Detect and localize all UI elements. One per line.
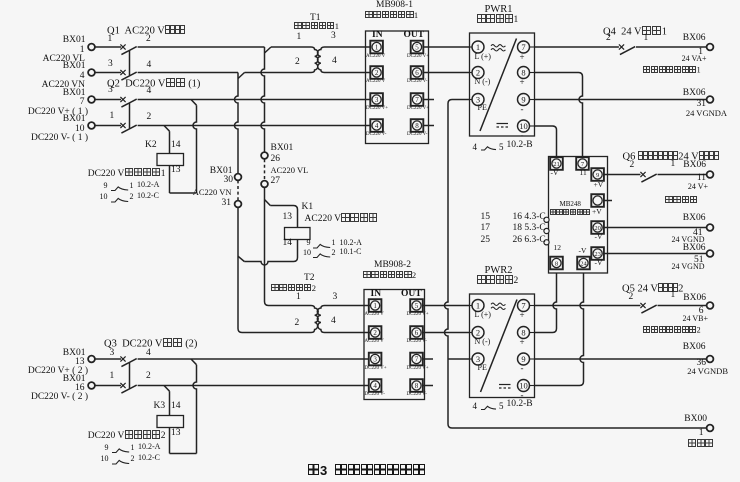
Q2 contact 4 (147, 87, 152, 97)
label relay K2 (145, 141, 157, 151)
MB908-2 pin 4 (369, 379, 382, 392)
MB908-2 IN (371, 290, 382, 300)
svg-text:23: 23 (594, 251, 601, 258)
K1 pin 13 (283, 213, 293, 223)
PWR2 pin 7 (530, 305, 535, 307)
label BX01 (30/31) (163, 167, 233, 177)
breaker Q4 x-mark (619, 44, 624, 49)
net 24 VGNDA (657, 109, 727, 118)
PWR2 pin9 - (521, 364, 524, 373)
pin number 16 (15, 384, 85, 394)
net 24 VA+ (637, 55, 707, 63)
net 24 VGND (41) (635, 236, 705, 244)
MB248 pin 10 (591, 194, 604, 207)
wire row3 to MB908-1 pin3 (138, 99, 370, 101)
K3 aux dest 10.2-A (138, 443, 160, 451)
label transformer T2 (304, 274, 315, 284)
MB248 aux 18 5.3-C (513, 224, 546, 234)
PWR1 pin 1 (470, 46, 473, 48)
label BX06 (51) (636, 244, 706, 254)
MB908-1 IN (372, 31, 383, 41)
svg-text:5: 5 (415, 302, 419, 310)
PWR1 N- (475, 78, 491, 86)
MB248 pin 7 (576, 157, 589, 170)
Q3 contact 1 (110, 372, 115, 382)
T2 pin 3 (333, 293, 338, 303)
breaker Q6 blade (641, 174, 656, 182)
label BX06 (31) (636, 89, 706, 99)
wire MB248 pin20 to BX06-41 (604, 227, 706, 229)
K3 aux pin 1 (131, 444, 135, 452)
breaker Q3 pole 3-4 x-mark (120, 356, 125, 361)
wire K2 coil bottom (169, 166, 171, 194)
K1 aux contact 9-1 (313, 244, 330, 248)
label dual supply module 2 (363, 271, 416, 280)
net label AC220 VL mid (271, 166, 309, 175)
Q1 contact 3 (108, 60, 113, 70)
label shield ground (644, 439, 714, 448)
breaker Q2 pole 3-4 blade (121, 99, 136, 107)
svg-text:2: 2 (476, 68, 480, 78)
svg-text:2: 2 (373, 329, 377, 337)
label transformer T1 (310, 14, 321, 24)
wire vertical B upper (node B to BX01-30, hops rows 3-4) (235, 73, 239, 174)
MB908-1 pin 3 (370, 93, 383, 106)
K2 aux pin 1 (130, 182, 134, 190)
PWR2 pin 3 (470, 358, 473, 360)
wire PWR2 pin3 PE stub (448, 358, 470, 360)
PWR2 undervoltage contact 4-5 (481, 406, 496, 409)
K1 aux pin 10 (291, 249, 311, 257)
PWR2 L+ (475, 311, 491, 319)
MB908-1 left pin label AC220 V (366, 54, 385, 59)
K2 aux contact 9-1 (111, 187, 128, 191)
MB908-2 pin 1 (369, 299, 382, 312)
K3 aux pin 2 (131, 455, 135, 463)
wire vertical A lower (27 to T2 pin1, hop K1 return) (265, 187, 269, 305)
dashed connector 26-27 (264, 159, 266, 180)
MB908-2 OUT (401, 290, 422, 300)
K1 aux pin 1 (332, 239, 336, 247)
breaker Q2 pole 1-2 blade (121, 125, 136, 133)
breaker Q1 pole 3-4 x-mark (120, 70, 125, 75)
MB908-1 pin 8 (411, 119, 424, 132)
wire row B2 to MB908-2 pin4 (138, 385, 369, 387)
MB908-1 right pin label DC220 V+ (407, 106, 429, 111)
K3 aux pin 10 (89, 455, 109, 463)
MB908-2 pin 3 (369, 353, 382, 366)
wire vertical B lower (31 to T2 pin2) (238, 207, 242, 332)
stub MB908-2 pin7 (423, 358, 433, 360)
PWR2 uv contact 4 (473, 402, 478, 411)
wire K1 coil feed (270, 206, 297, 228)
dashed connector 30-31 (237, 180, 239, 200)
MB908-1 right pin label DC220 V- (407, 79, 427, 84)
PWR1 pin 2 (470, 72, 473, 74)
PWR1 DC symbol (497, 123, 509, 125)
MB908-2 right pin label DC220 V- (407, 339, 427, 344)
svg-text:8: 8 (415, 122, 419, 130)
MB908-2 pin 7 (410, 353, 423, 366)
svg-text:1: 1 (476, 42, 480, 52)
svg-text:2: 2 (476, 328, 480, 338)
K1 aux dest 10.1-C (340, 248, 362, 256)
breaker Q3 pole 1-2 x-mark (120, 383, 125, 388)
MB908-2 pin 6 (410, 326, 423, 339)
wire node A to T1 pin 1 (271, 46, 311, 48)
pin number 1 (15, 46, 85, 56)
PWR1 uv contact 4 (473, 143, 478, 152)
wire MB248 pin9 to Q6 (604, 174, 640, 176)
terminal BX01 pin16 (88, 382, 95, 389)
label BX01 (row1) (16, 36, 86, 46)
net label DC220 V+ (1) (18, 108, 88, 118)
terminal BX01 pin1 (88, 44, 95, 51)
power supply PWR2 box (470, 294, 535, 398)
terminal BX06 pin41 (707, 224, 714, 231)
net 24 V+ (638, 183, 708, 191)
wire Q6 to BX06-11 (658, 174, 707, 176)
label BX06 (11) (636, 161, 706, 171)
K3 aux contact 10-2 (112, 460, 129, 464)
Q3 contact 2 (146, 372, 151, 382)
MB908-1 left pin label DC220 V- (366, 132, 386, 137)
label dual supply module 1 (365, 11, 418, 20)
wire PWR2 pin8 to MB248 pin8 riser (hop Q5 rail) (535, 273, 557, 333)
K2 aux dest 10.2-C (137, 192, 159, 200)
PWR1 pin 9 (530, 99, 535, 101)
K2 aux contact 10-2 (111, 198, 128, 202)
wire row B1 to MB908-2 pin3 (138, 358, 369, 360)
PWR2 N- (475, 338, 491, 346)
PWR2 AC symbol (491, 303, 505, 305)
MB248 aux 25 (460, 236, 490, 246)
stub MB908-1 pin7 (424, 99, 434, 101)
wire row1 Q1 out to node A (138, 46, 265, 48)
pin number 31 (161, 199, 231, 209)
wire bottom shield rail to BX00 (452, 427, 707, 429)
net label AC220 VL (15, 55, 85, 65)
pin number 31 right (636, 100, 706, 110)
MB248 aux 26 6.3-C (513, 236, 546, 246)
MB908-1 pin 4 (370, 119, 383, 132)
wire vertical A upper (node A to BX01-26, hops rows 2-4) (261, 47, 264, 152)
junction jog row4 to K2 coil riser (164, 126, 170, 132)
junction jog row3 to K2 return riser (191, 100, 197, 106)
label MB248 (560, 201, 581, 208)
svg-text:1: 1 (476, 301, 480, 311)
PWR1 uv dest 10.2-B (507, 141, 533, 151)
PWR2 pin7 + (520, 311, 525, 320)
T1 pin 2 (295, 58, 300, 68)
svg-text:4: 4 (375, 122, 379, 130)
K2 aux dest 10.2-A (137, 181, 159, 189)
MB908-2 left pin label DC220 V- (365, 392, 385, 397)
transformer T2 primary winding (242, 306, 318, 333)
MB248 pin 23 (591, 247, 604, 260)
pin number 51 right (634, 256, 704, 266)
Q1 contact 2 (146, 35, 151, 45)
label BX01 (row4) (16, 115, 86, 125)
junction jog node A to T1 pin1 wire (265, 47, 272, 53)
svg-text:6: 6 (415, 329, 419, 337)
junction jog node B to T1 pin2 wire (238, 73, 245, 79)
wire Q4 to BX06-1 (636, 46, 707, 48)
K1 aux pin 9 (291, 239, 311, 247)
label breaker Q4 header (603, 26, 667, 38)
MB908-2 right pin label DC220 V+ (407, 312, 429, 317)
wire MB908-2 pin5 to PWR2 pin1 (423, 305, 469, 307)
label breaker Q2 header (107, 78, 200, 90)
breaker Q6 x-mark (640, 172, 645, 177)
PWR1 AC symbol (491, 45, 505, 47)
wire MB248 pin23 to BX06-51 (604, 253, 706, 255)
label BX01 (row13) (16, 349, 86, 359)
svg-text:8: 8 (415, 382, 419, 390)
K2 aux pin 9 (88, 182, 108, 190)
svg-text:8: 8 (555, 260, 558, 267)
svg-text:9: 9 (521, 95, 525, 105)
MB908-1 right pin label DC220 V- (407, 132, 427, 137)
transformer T1 primary winding (311, 47, 318, 73)
label breaker Q5 header (622, 283, 683, 295)
wire MB908-2 pin6 to PWR2 pin2 (423, 332, 469, 334)
PWR2 pin 10 (530, 385, 535, 387)
wire K3 coil top riser (169, 391, 171, 415)
PWR2 pin 2 (470, 332, 473, 334)
wire PWR2 pin9 to BX06-36 (535, 358, 707, 360)
net 24 VGND (51) (635, 263, 705, 271)
label BX06 (36) (636, 343, 706, 353)
wire MB908-1 pin6 to PWR1 pin2 (424, 72, 470, 74)
MB248 pin21 -V (551, 169, 559, 177)
PWR2 PE (478, 364, 487, 372)
svg-text:3: 3 (375, 96, 379, 104)
K2 aux pin 10 (88, 193, 108, 201)
wire PWR1 pin9 to BX06-31 (535, 99, 707, 101)
svg-text:4: 4 (373, 382, 377, 390)
MB248 pin10 +V (592, 208, 602, 216)
PWR1 uv contact 5 (499, 143, 504, 152)
PWR2 uv dest 10.2-B (507, 400, 533, 410)
wire row4 to MB908-1 pin4 (138, 125, 370, 127)
terminal BX06 pin11 (707, 171, 714, 178)
pin number 13 (15, 358, 85, 368)
breaker Q2 linkage (129, 103, 131, 129)
terminal BX00 pin1 (707, 425, 714, 432)
svg-text:9: 9 (596, 172, 599, 179)
relay coil K2 (157, 154, 184, 166)
terminal BX06 pin36 (707, 356, 714, 363)
PWR1 L+ (475, 53, 491, 61)
pin number 6 right (634, 307, 704, 317)
MB248 left edge connector dots (544, 217, 549, 222)
net label DC220 V- (1) (18, 134, 88, 144)
terminal BX01 pin27 (261, 181, 268, 188)
T1 pin 3 (331, 32, 336, 42)
wire K3 return riser (hop rowB2) (193, 365, 196, 454)
T2 pin 4 (331, 317, 336, 327)
wire MB908-1 pin5 to PWR1 pin1 (424, 46, 470, 48)
PWR2 uv contact 5 (499, 402, 504, 411)
breaker Q5 x-mark (640, 303, 645, 308)
wire PWR1 pin7 to Q4 (535, 46, 619, 48)
label breaker Q6 header (623, 151, 719, 163)
breaker Q5 blade (641, 305, 656, 313)
label common power (665, 196, 698, 205)
K2 pin 14 (171, 141, 181, 151)
transformer T1 secondary winding (317, 47, 324, 73)
label isolation transformer 1 (294, 22, 339, 31)
svg-text:3: 3 (373, 356, 377, 364)
svg-text:21: 21 (553, 161, 560, 168)
svg-text:7: 7 (521, 42, 525, 52)
MB908-1 left pin label DC220 V+ (366, 106, 388, 111)
MB908-1 pin 7 (411, 93, 424, 106)
Q4 contact 1 (644, 34, 649, 44)
pin number 41 right (633, 229, 703, 239)
K1 aux contact 10-2 (313, 254, 330, 258)
PWR2 pin 9 (530, 358, 535, 360)
wire node B to T1 pin 2 (245, 72, 312, 74)
PWR1 PE (478, 104, 487, 112)
MB248 aux 15 (460, 213, 490, 223)
svg-text:10: 10 (519, 381, 528, 391)
Q5 contact 2 (629, 293, 634, 303)
MB908-2 pin 2 (369, 326, 382, 339)
MB908-2 right pin label DC220 V- (407, 392, 427, 397)
stub MB908-1 pin8 (424, 125, 434, 127)
stub MB248 pin10 (604, 200, 612, 202)
pin number 27 (271, 177, 281, 187)
pin number 11 right (636, 174, 706, 184)
junction jog K1 return to vertical B (238, 256, 244, 261)
net 24 VB+ (638, 315, 708, 323)
K3 pin 14 (171, 402, 181, 412)
wire row2 Q1 out to node B (138, 72, 238, 74)
terminal BX01 pin31 (235, 201, 242, 208)
K1 pin 14 (283, 239, 293, 249)
PWR2 DC symbol (499, 384, 511, 386)
Q3 contact 3 (110, 349, 115, 359)
label relay K1 (302, 203, 314, 213)
MB908-2 left pin label AC220 V (365, 339, 384, 344)
net label AC220 VN mid (162, 188, 232, 197)
pin number 30 (163, 176, 233, 186)
wire PWR2 pin10 to MB248 pin24 riser (hops Q5 and pin9 rails) (535, 273, 584, 386)
MB248 pin24 -V (579, 247, 587, 255)
terminal BX01 pin7 (88, 96, 95, 103)
PWR2 pin 1 (470, 305, 473, 307)
pin number 1 right (633, 48, 703, 58)
terminal BX06 pin31 (707, 96, 714, 103)
breaker Q2 pole 3-4 x-mark (120, 97, 125, 102)
K3 pin 13 (171, 429, 181, 439)
PWR1 pin 7 (530, 46, 535, 48)
svg-text:6: 6 (415, 69, 419, 77)
terminal BX06 pin1 (707, 44, 714, 51)
PWR2 pin 8 (530, 332, 535, 334)
net 24 VGNDB (658, 367, 728, 376)
svg-text:8: 8 (521, 328, 525, 338)
PWR1 pin 10 (530, 125, 535, 127)
T2 pin 2 (295, 319, 300, 329)
MB908-1 right pin label DC220 V+ (407, 54, 429, 59)
breaker Q2 pole 1-2 x-mark (120, 123, 125, 128)
MB908-2 pin 8 (410, 379, 423, 392)
K2 aux pin 2 (130, 193, 134, 201)
K1 aux pin 2 (332, 249, 336, 257)
wire K3 bottom horizontal (170, 453, 197, 455)
junction jog rowB2 to K3 coil riser (164, 386, 170, 392)
Q1 contact 4 (147, 61, 152, 71)
label isolation transformer 2 (271, 284, 316, 293)
PWR1 pin7 + (520, 53, 525, 62)
label BX01 (26/27) (271, 144, 294, 154)
label DC220V supply monitor2 (66, 430, 166, 441)
label BX06 (41) (636, 214, 706, 224)
transformer T2 secondary winding (317, 306, 370, 333)
terminal BX01 pin26 (261, 152, 268, 159)
PWR1 pin10 - (521, 131, 524, 140)
pin number 36 right (636, 359, 706, 369)
label breaker Q1 header (107, 25, 185, 37)
label switching power 2 (477, 275, 518, 286)
MB248 aux 16 4.3-C (513, 213, 546, 223)
stub MB908-2 pin8 (423, 385, 433, 387)
wire PWR1 pin8 to MB248 pin7 riser (hop pin9 rail) (535, 73, 583, 157)
label BX06 (6) (636, 294, 706, 304)
label BX00 (637, 415, 707, 425)
Q4 contact 2 (606, 34, 611, 44)
PWR2 internal diagonal (481, 300, 518, 393)
module MB908-1 box (366, 31, 429, 144)
wire K2 return riser (hop row4) (193, 105, 196, 193)
label switching power 1 (477, 14, 518, 25)
MB248 pin9 +V (594, 181, 604, 189)
wire K2 bottom horizontal (170, 192, 197, 194)
label guide-vane servo valve 2 (643, 326, 701, 335)
breaker Q1 pole 1-2 x-mark (120, 44, 125, 49)
wire K2 coil top riser (169, 131, 171, 153)
wire PE riser (PWR1 pin3 to bottom rail, hops MB908-2 outputs) (445, 100, 470, 429)
svg-text:2: 2 (375, 69, 379, 77)
terminal BX06 pin51 (707, 250, 714, 257)
breaker Q1 pole 3-4 blade (121, 72, 136, 80)
power supply PWR1 box (470, 33, 535, 136)
svg-text:8: 8 (521, 68, 525, 78)
svg-text:24: 24 (580, 260, 587, 267)
svg-text:7: 7 (415, 96, 419, 104)
label DC220V supply monitor1 (66, 168, 166, 179)
MB908-2 left pin label DC220 V+ (365, 366, 387, 371)
terminal BX01 pin30 (235, 174, 242, 181)
junction jog vertical A to K1 coil (265, 200, 271, 206)
pin number 26 (271, 155, 281, 165)
PWR1 pin8 + (520, 78, 525, 87)
terminal BX06 pin6 (707, 302, 714, 309)
Q3 contact 4 (146, 349, 151, 359)
Q6 contact 2 (630, 161, 635, 171)
PWR2 pin8 + (520, 338, 525, 347)
module MB248 box (549, 157, 608, 274)
MB908-1 pin 6 (411, 66, 424, 79)
module MB908-2 box (364, 290, 425, 400)
MB908-2 pin 5 (410, 299, 423, 312)
PWR1 pin9 - (521, 105, 524, 114)
label power switch module (550, 209, 590, 217)
MB248 aux 17 (460, 224, 490, 234)
